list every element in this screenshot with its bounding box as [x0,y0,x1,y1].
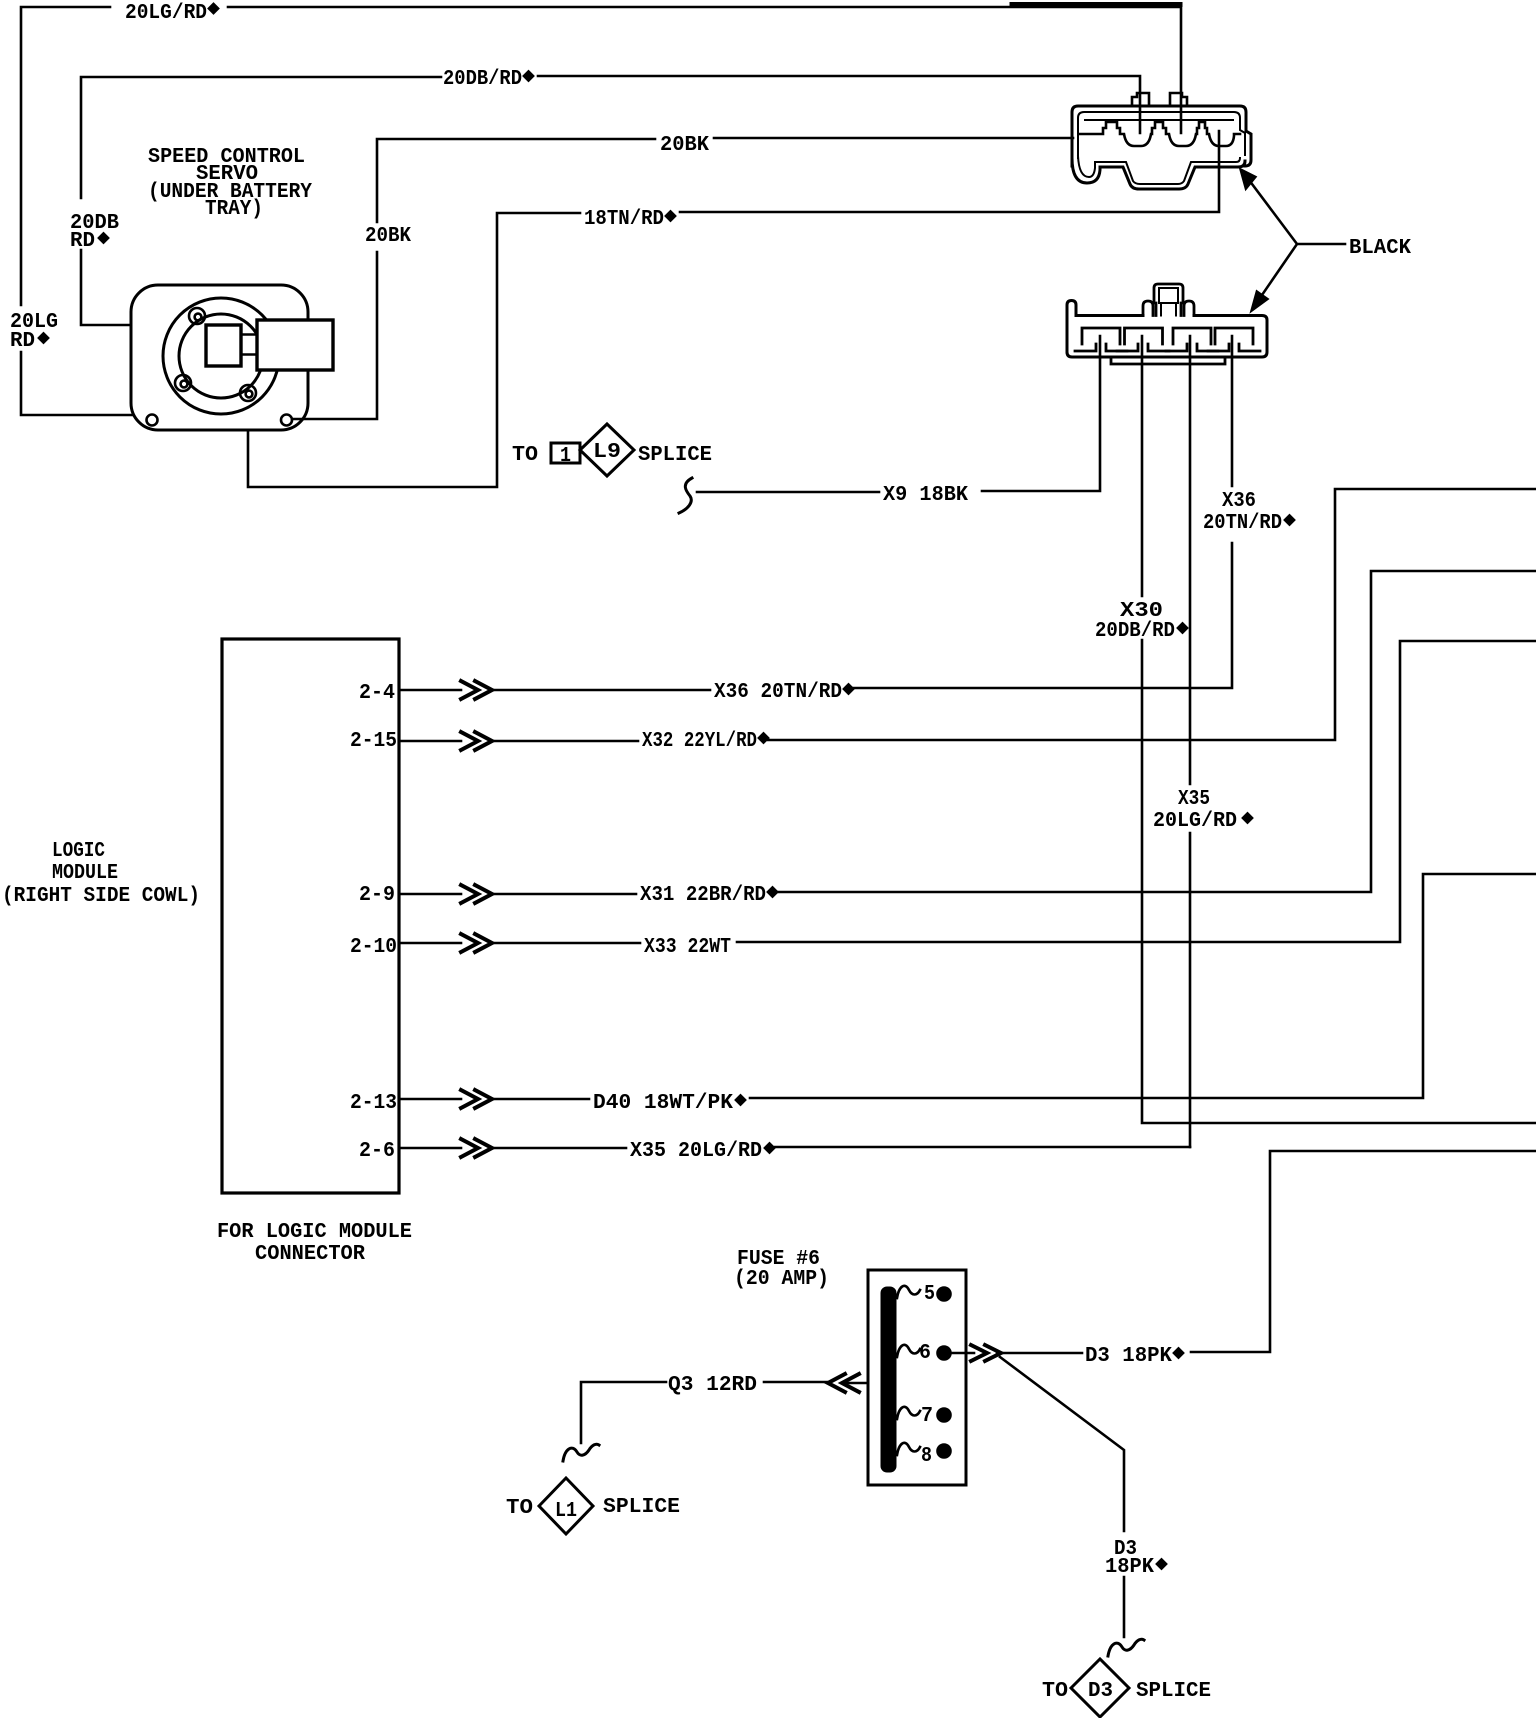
connector C2 cavity pin 4 [1208,328,1260,351]
svg-text:2-13: 2-13 [350,1091,397,1115]
svg-text:FOR LOGIC MODULE: FOR LOGIC MODULE [217,1220,412,1244]
svg-text:18TN/RD: 18TN/RD [584,207,664,231]
fuse element pin 8 [897,1443,951,1458]
label X30 20DB/RD on vertical [1095,599,1189,643]
label X36 20TN/RD on vertical [1203,489,1296,535]
fuse element pin 5 [897,1286,951,1301]
label X31 22BR/RD row [640,883,779,907]
arrow pin 2-10 [461,934,492,952]
label TO 1 L9 SPLICE [512,440,712,468]
svg-text:5: 5 [924,1282,935,1306]
label SPEED CONTROL SERVO [148,145,312,221]
label 20DB RD vertical wire [70,211,119,253]
svg-text:D3 18PK: D3 18PK [1085,1344,1172,1368]
connector C2 black (lower) body [1067,301,1267,358]
splice symbol L1 [539,1478,593,1534]
label 20LG RD vertical wire [10,310,58,353]
label TO D3 SPLICE [1042,1679,1211,1703]
wire X33 22WT from pin 2-10 to right edge [399,641,1536,943]
svg-text:X35 20LG/RD: X35 20LG/RD [630,1139,762,1163]
connector C2 post left of tab [1143,301,1153,316]
wire 18TN/RD from servo pin to connector C2 area [248,131,1219,487]
svg-text:SPLICE: SPLICE [1136,1679,1211,1703]
svg-text:CONNECTOR: CONNECTOR [255,1242,365,1266]
svg-text:MODULE: MODULE [52,861,118,885]
svg-text:D3: D3 [1088,1679,1113,1703]
svg-text:D40 18WT/PK: D40 18WT/PK [593,1091,733,1115]
label D3 18PK vertical [1105,1537,1168,1579]
arrow pin 2-9 [461,885,492,903]
connector C1 terminal bumps [1079,122,1240,146]
svg-text:20BK: 20BK [365,224,411,248]
arrow pin 2-6 [461,1139,492,1157]
splice symbol D3 [1071,1659,1129,1717]
svg-text:20DB/RD: 20DB/RD [443,67,522,91]
svg-text:20BK: 20BK [660,133,709,157]
wire 20DB/RD from servo to connector C1 pin [81,76,1140,325]
connector C2 bottom plate [1111,357,1225,364]
label FUSE #6 (20 AMP) [734,1247,829,1291]
servo screw hole left [147,415,158,426]
connector C1 black (top) outer shell [1072,106,1251,189]
svg-text:X32 22YL/RD: X32 22YL/RD [642,729,757,753]
svg-text:SPLICE: SPLICE [603,1495,680,1519]
svg-text:RD: RD [10,329,35,353]
svg-text:L1: L1 [555,1499,577,1523]
wire X35 20LG/RD row from pin 2-6 [399,1147,1190,1148]
wire X9 18BK with break squiggle [679,336,1100,513]
label D3 18PK row [1085,1344,1185,1368]
svg-text:1: 1 [560,444,571,468]
BLACK callout arrows [1241,170,1345,310]
svg-text:SPLICE: SPLICE [638,443,712,467]
speed control servo body [131,285,308,430]
svg-text:TO: TO [506,1496,533,1520]
svg-text:X33 22WT: X33 22WT [644,935,731,959]
splice symbol L9 with terminal box [551,424,634,476]
servo bolt ear bottom-left [175,375,191,391]
svg-text:X31 22BR/RD: X31 22BR/RD [640,883,766,907]
label X35 20LG/RD on vertical [1153,787,1254,833]
svg-text:20LG/RD: 20LG/RD [1153,809,1237,833]
svg-text:RD: RD [70,229,95,253]
svg-text:6: 6 [919,1341,931,1365]
wire 20BK from servo to connector C1 [292,138,1073,419]
label D40 18WT/PK row [593,1091,747,1115]
connector C1 top tab left [1132,93,1149,106]
svg-text:TRAY): TRAY) [205,197,263,221]
svg-text:(20 AMP): (20 AMP) [734,1267,829,1291]
arrow pin 2-4 [461,681,492,699]
arrow fuse pin 6 [971,1345,1001,1361]
svg-text:2-4: 2-4 [359,681,395,705]
wire D40 18WT/PK from pin 2-13 to right edge [399,874,1536,1099]
connector C2 cavity pin 1 [1075,328,1127,351]
svg-text:2-9: 2-9 [359,883,395,907]
svg-text:8: 8 [921,1444,932,1468]
wire X30 20DB/RD from C2 pin 2 down to right edge [1142,336,1536,1123]
wire X35 20LG/RD vertical from C2 pin 3 to row 2-6 [1189,336,1192,1147]
label X32 22YL/RD row [642,729,770,753]
wire D3 18PK diagonal branch to splice D3 [1000,1357,1144,1656]
svg-text:TO: TO [512,443,538,467]
svg-text:20DB/RD: 20DB/RD [1095,619,1175,643]
svg-text:2-10: 2-10 [350,935,397,959]
fuse block box [868,1270,966,1485]
label 18TN/RD [584,207,677,231]
wire D3 18PK from fuse 6 to right edge [966,1151,1536,1353]
svg-text:7: 7 [921,1404,933,1428]
svg-text:X35: X35 [1178,787,1210,811]
arrow pin 2-15 [461,732,492,750]
svg-text:TO: TO [1042,1679,1068,1703]
arrow fuse Q3 (left) [828,1374,859,1392]
svg-text:X36: X36 [1222,489,1256,513]
svg-text:18PK: 18PK [1105,1555,1154,1579]
svg-text:20LG/RD: 20LG/RD [125,1,207,25]
wire X31 22BR/RD from pin 2-9 to right edge [399,571,1536,894]
connector C2 center tab [1154,284,1183,316]
servo bolt ear bottom-right [240,385,256,401]
svg-text:2-6: 2-6 [359,1139,395,1163]
label TO L1 SPLICE [506,1495,680,1523]
svg-text:X36 20TN/RD: X36 20TN/RD [714,680,842,704]
fuse element pin 7 [897,1407,951,1422]
wire X36 20TN/RD from C2 pin 4 to logic module pin 2-4 [399,336,1232,690]
svg-text:BLACK: BLACK [1349,236,1411,260]
svg-text:(RIGHT SIDE COWL): (RIGHT SIDE COWL) [2,884,200,908]
label X36 20TN/RD row [714,680,855,704]
servo bolt ear top-left [189,308,205,324]
svg-text:LOGIC: LOGIC [52,839,105,863]
connector C1 inner shell [1078,112,1245,184]
svg-text:L9: L9 [593,440,621,464]
label LOGIC MODULE (RIGHT SIDE COWL) [2,839,200,908]
label FOR LOGIC MODULE CONNECTOR [217,1220,412,1266]
connector C1 top tab right [1170,93,1187,106]
arrow pin 2-13 [461,1090,492,1108]
wire 20LG/RD from servo to connector C1 pin [21,5,1181,416]
svg-text:2-15: 2-15 [350,729,397,753]
servo screw hole right [281,415,292,426]
wire Q3 12RD from fuse to splice L1 [563,1382,868,1461]
logic module connector box [222,639,399,1193]
svg-text:Q3 12RD: Q3 12RD [668,1373,757,1397]
fuse element pin 6 [897,1345,966,1360]
fuse block bus bar [882,1288,895,1471]
connector C2 post right of tab [1184,301,1194,316]
svg-text:X9 18BK: X9 18BK [883,483,968,507]
connector C2 cavity pin 3 [1166,328,1218,351]
svg-text:20TN/RD: 20TN/RD [1203,511,1282,535]
connector C2 cavity pin 2 [1117,328,1169,351]
label X35 20LG/RD row [630,1139,776,1163]
label 20LG/RD top [125,1,220,25]
servo connector tab rectangle [206,320,333,370]
label 20DB/RD top [443,67,535,91]
wire X32 22YL/RD from pin 2-15 to right edge [399,489,1536,741]
